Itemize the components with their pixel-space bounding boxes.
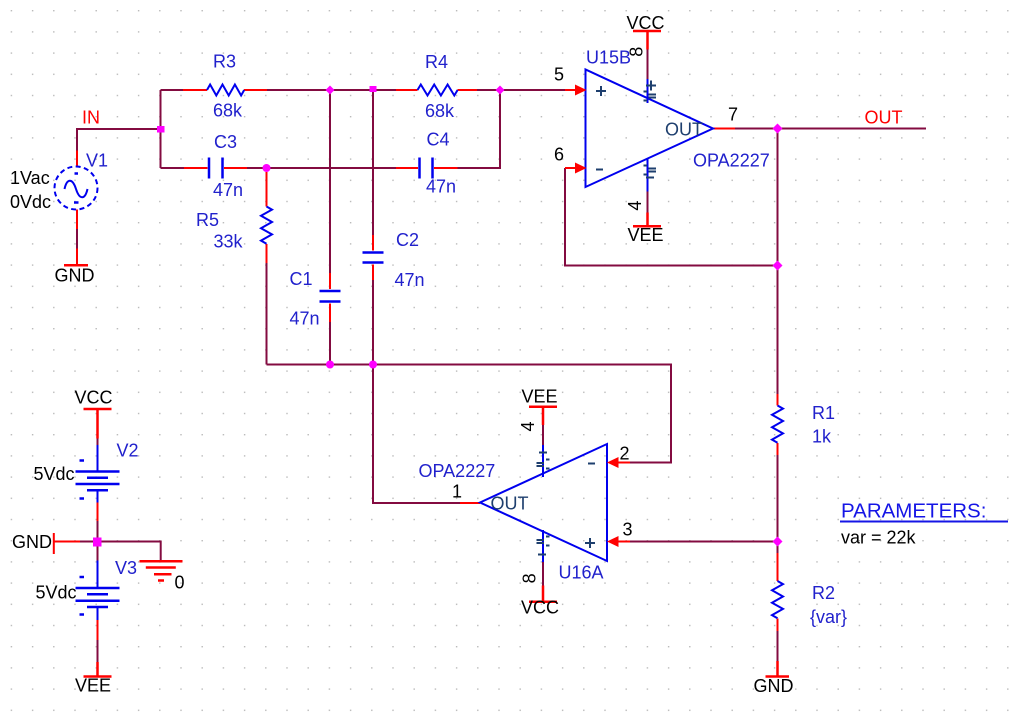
svg-text:var = 22k: var = 22k <box>841 528 917 548</box>
svg-text:4: 4 <box>625 201 645 211</box>
U15B pin7 stub <box>713 128 735 130</box>
wire R1 to junction row <box>777 455 779 568</box>
U15B plus input mark <box>596 86 606 96</box>
svg-text:68k: 68k <box>425 101 455 121</box>
wire OUT net: pin7 to OUT, and vertical down to R1 <box>735 129 926 395</box>
V1 minus mark <box>74 201 79 204</box>
U15B pin5 stub <box>565 89 578 91</box>
junction feedback node <box>773 261 783 271</box>
U15B bottom power pin glyph <box>644 166 657 178</box>
svg-text:R5: R5 <box>196 210 219 230</box>
U16A pin3 stub <box>616 541 630 543</box>
U15B VEE power: bar and wire <box>633 213 661 227</box>
V3 VEE power: bar and wire <box>84 662 112 677</box>
capacitor C1 plates <box>320 291 341 302</box>
U16A pin2 arrow <box>607 457 619 468</box>
svg-text:OUT: OUT <box>865 108 903 128</box>
0 ground symbol lines <box>140 561 183 580</box>
svg-text:GND: GND <box>754 676 794 696</box>
resistor R4 pin stubs <box>396 89 477 91</box>
svg-text:1k: 1k <box>812 427 832 447</box>
op-amp U15B triangle <box>586 70 714 188</box>
U16A VCC power: bar and wire <box>529 586 557 602</box>
junction GND/V2/V3 node <box>93 538 102 547</box>
resistor R1 body <box>772 406 783 443</box>
RED PIN STUBS AND POWER SYMBOLS <box>54 31 789 677</box>
U16A bottom power pin wire <box>542 530 544 562</box>
resistor R4 body <box>418 85 458 96</box>
wire R5 column lower <box>266 263 268 365</box>
wire row 90 net segments between R3, R4, to U15B pin5 <box>161 90 566 168</box>
svg-text:0: 0 <box>175 573 185 593</box>
wire IN net: V1 top to junction, vertical through row90-row168 <box>77 90 161 249</box>
svg-text:33k: 33k <box>214 232 244 252</box>
wire C2 column vertical <box>372 90 374 365</box>
svg-text:V1: V1 <box>86 151 108 171</box>
svg-text:IN: IN <box>82 108 100 128</box>
COMPONENT BODIES (blue) <box>207 85 783 619</box>
svg-text:R3: R3 <box>213 52 236 72</box>
svg-text:3: 3 <box>623 520 633 540</box>
svg-text:68k: 68k <box>213 101 243 121</box>
junction row90 R4/C4 <box>496 86 505 95</box>
wire V3 top pin <box>97 542 99 561</box>
svg-text:VCC: VCC <box>521 598 559 618</box>
svg-text:VEE: VEE <box>75 676 111 696</box>
svg-text:5: 5 <box>554 65 564 85</box>
V2 VCC power: bar and wire <box>84 409 112 439</box>
svg-text:U15B: U15B <box>586 48 631 68</box>
resistor R5 body <box>261 207 272 244</box>
V3 bottom pin stub <box>97 620 99 640</box>
svg-text:OUT: OUT <box>665 120 703 140</box>
junction row90 C1 column <box>326 86 335 95</box>
svg-text:{var}: {var} <box>810 607 847 627</box>
wire pin3 row <box>630 541 778 543</box>
GND flat label tick <box>54 533 80 554</box>
svg-text:GND: GND <box>55 266 95 286</box>
resistor R5 pin stubs <box>266 172 268 263</box>
wire R2 lower to GND <box>777 631 779 661</box>
V3 minus mark <box>80 613 85 616</box>
U16A VEE power: bar and wire <box>529 407 557 425</box>
junction OUT node <box>773 124 783 134</box>
svg-text:5Vdc: 5Vdc <box>34 464 75 484</box>
svg-text:V3: V3 <box>115 558 137 578</box>
svg-text:5Vdc: 5Vdc <box>36 583 77 603</box>
U15B pin5 arrow <box>575 85 587 96</box>
junction pin3/R1/R2 node <box>773 537 783 547</box>
R2 pin stubs <box>777 553 779 631</box>
junction bottom row C1 <box>326 361 334 369</box>
junction bottom row C2 <box>369 361 377 369</box>
V1 AC source <box>55 167 98 210</box>
V3 plus mark <box>80 576 85 579</box>
svg-text:VEE: VEE <box>628 225 664 245</box>
op-amp U16A triangle <box>480 444 607 561</box>
U15B pin6 stub <box>565 167 578 169</box>
svg-text:6: 6 <box>554 145 564 165</box>
svg-text:PARAMETERS:: PARAMETERS: <box>841 500 986 523</box>
svg-text:U16A: U16A <box>559 563 604 583</box>
U16A plus input mark <box>585 538 595 548</box>
junction IN node <box>157 126 165 133</box>
svg-text:GND: GND <box>12 532 52 552</box>
svg-text:OPA2227: OPA2227 <box>419 461 496 481</box>
V1 sine wave <box>65 181 88 198</box>
resistor R3 body <box>207 85 244 96</box>
svg-text:V2: V2 <box>117 441 139 461</box>
svg-text:47n: 47n <box>426 177 456 197</box>
svg-text:C3: C3 <box>214 132 237 152</box>
parameters underline <box>840 521 1008 523</box>
svg-text:8: 8 <box>520 573 540 583</box>
U15B minus input mark <box>596 169 603 171</box>
capacitor C4 pin stubs <box>396 167 458 169</box>
U16A pin1 output stub <box>460 502 480 504</box>
V2 minus mark <box>80 497 85 500</box>
svg-text:4: 4 <box>518 421 538 431</box>
U15B pin6 arrow <box>575 163 587 174</box>
svg-text:0Vdc: 0Vdc <box>10 192 51 212</box>
svg-text:47n: 47n <box>290 309 320 329</box>
wire V3 lower connection <box>97 640 99 662</box>
svg-text:47n: 47n <box>395 270 425 290</box>
U15B VCC power: bar and wire <box>633 31 661 50</box>
junction row90 C2 column <box>370 86 377 92</box>
U16A pin2 stub <box>616 462 630 464</box>
svg-text:R4: R4 <box>425 52 448 72</box>
svg-text:1Vac: 1Vac <box>10 168 50 188</box>
GND symbol bar under V1 <box>64 264 88 267</box>
svg-text:OUT: OUT <box>491 494 529 514</box>
resistor R2 body <box>772 581 783 618</box>
capacitor C3 plates <box>209 158 223 179</box>
wire GND label to junction <box>80 541 98 543</box>
U15B top power pin glyph <box>644 81 657 101</box>
svg-text:C4: C4 <box>427 130 450 150</box>
svg-text:R2: R2 <box>812 583 835 603</box>
V1 plus mark <box>75 172 79 175</box>
U16A pin3 arrow <box>607 536 619 547</box>
capacitor C3 pin stubs <box>184 167 247 169</box>
V1 pin stubs <box>76 151 78 265</box>
svg-text:2: 2 <box>620 444 630 464</box>
capacitor C2 plates <box>363 253 384 263</box>
U16A minus input mark <box>588 463 595 465</box>
resistor R3 pin stubs <box>183 89 267 91</box>
U16A top power pin glyph <box>537 453 550 469</box>
svg-text:1: 1 <box>452 482 462 502</box>
wire row 168 net segments between C3, C4 <box>161 167 397 169</box>
V2 plus mark <box>80 459 85 462</box>
U15B bottom power pin wire <box>647 159 649 192</box>
junction C3/R5 node <box>263 164 271 172</box>
V3 battery body <box>76 561 120 621</box>
svg-text:47n: 47n <box>213 180 243 200</box>
wire bottom row to U16A pin2 <box>267 365 672 463</box>
svg-text:VEE: VEE <box>522 387 558 407</box>
V2 battery body <box>76 445 120 503</box>
svg-text:VCC: VCC <box>627 13 665 33</box>
V1 dashed circle <box>55 167 98 210</box>
wire U16A output to bottom row <box>373 365 460 504</box>
svg-text:OPA2227: OPA2227 <box>693 151 770 171</box>
svg-text:8: 8 <box>627 47 647 57</box>
wire U15B feedback: pin6 down and right to node <box>565 168 778 266</box>
U16A top power pin wire <box>542 425 544 445</box>
GND symbol bar under R2 <box>766 661 790 677</box>
wire junction to 0 ground <box>98 542 161 561</box>
capacitor C4 plates <box>420 158 433 179</box>
U15B top power pin wire <box>647 50 649 104</box>
svg-text:C1: C1 <box>290 269 313 289</box>
R1 pin stubs <box>777 394 779 455</box>
svg-text:7: 7 <box>728 105 738 125</box>
svg-text:R1: R1 <box>812 403 835 423</box>
capacitor C1 pin stubs <box>329 273 331 322</box>
capacitor C2 pin stubs <box>372 235 374 280</box>
V2 bottom pin stub <box>97 503 99 522</box>
wire V2 upper and lower connections <box>97 439 99 542</box>
U16A bottom power pin glyph <box>537 537 550 555</box>
svg-text:C2: C2 <box>396 230 419 250</box>
svg-text:VCC: VCC <box>75 388 113 408</box>
wire C1 column vertical <box>329 90 331 365</box>
